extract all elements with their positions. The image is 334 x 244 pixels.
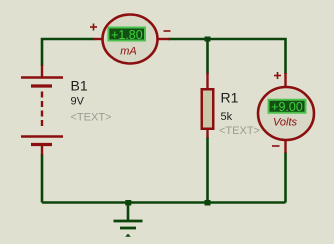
- junction bottom resistor node: [205, 200, 211, 206]
- battery B1 top pin: [41, 65, 43, 77]
- resistor R1 bottom pin: [206, 129, 208, 138]
- svg-text:<TEXT>: <TEXT>: [71, 112, 112, 124]
- wire resistor branch top: [206, 39, 209, 74]
- wire ammeter right to top-right corner and down to voltmeter: [168, 39, 286, 74]
- resistor R1 top pin: [206, 73, 208, 90]
- wire top-left: battery top to ammeter: [42, 39, 95, 66]
- svg-text:B1: B1: [71, 78, 88, 94]
- svg-text:+9.00: +9.00: [271, 100, 303, 114]
- ammeter body: [103, 15, 158, 64]
- voltmeter top pin (+): [284, 73, 286, 88]
- svg-text:<TEXT>: <TEXT>: [219, 125, 260, 137]
- ammeter right pin (-): [156, 38, 169, 40]
- svg-text:5k: 5k: [221, 111, 233, 123]
- junction top resistor node: [205, 37, 211, 42]
- battery B1 bottom pin: [41, 145, 43, 155]
- voltmeter plus sign: [274, 75, 281, 77]
- wire bottom: [42, 201, 286, 204]
- svg-text:9V: 9V: [71, 96, 85, 108]
- ammeter plus sign: [90, 26, 97, 28]
- battery B1 top cell: [21, 76, 63, 78]
- voltmeter display: [269, 100, 306, 113]
- battery B1 bottom cell: [21, 135, 63, 137]
- battery B1 dashed middle: [41, 92, 43, 128]
- wire resistor branch bottom: [206, 137, 209, 203]
- ammeter display: [108, 28, 145, 41]
- junction ground node: [125, 200, 131, 206]
- voltmeter minus sign: [272, 145, 280, 147]
- voltmeter body: [258, 87, 314, 140]
- ammeter left pin (+): [94, 38, 104, 40]
- voltmeter bottom pin (-): [284, 139, 286, 153]
- ammeter minus sign: [164, 30, 171, 32]
- svg-text:+1.80: +1.80: [111, 28, 143, 42]
- svg-text:Volts: Volts: [273, 117, 298, 129]
- ground: [114, 205, 143, 237]
- resistor R1 body: [202, 89, 214, 129]
- svg-text:R1: R1: [221, 90, 239, 106]
- wire voltmeter bottom to bottom-right corner: [284, 152, 287, 203]
- svg-text:mA: mA: [120, 46, 137, 58]
- wire battery bottom to bottom-left corner: [41, 154, 44, 203]
